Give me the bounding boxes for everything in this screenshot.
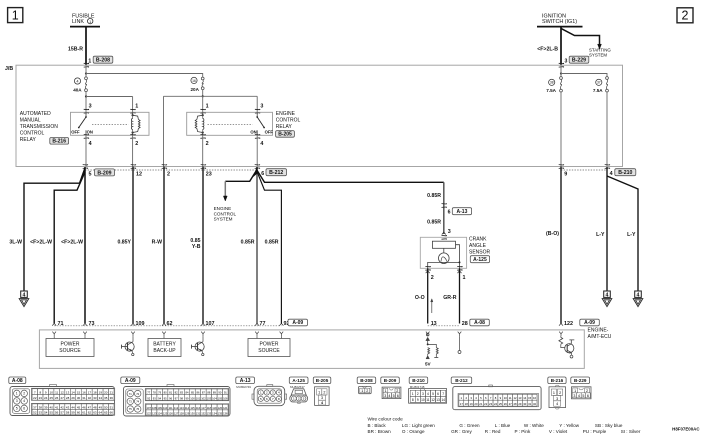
- svg-text:B-210: B-210: [412, 378, 425, 383]
- svg-text:PU : Purple: PU : Purple: [583, 429, 607, 434]
- svg-text:B-205: B-205: [278, 132, 292, 138]
- offsheet pointer 4 (L-Y left): [604, 291, 611, 297]
- ECU transistor under 107: [202, 336, 204, 342]
- svg-text:94: 94: [158, 396, 161, 400]
- svg-text:113: 113: [179, 406, 184, 410]
- svg-text:1: 1: [318, 391, 320, 395]
- svg-text:83: 83: [180, 391, 183, 395]
- svg-text:17: 17: [460, 402, 464, 406]
- svg-text:A-13: A-13: [240, 378, 251, 384]
- svg-text:15: 15: [528, 396, 532, 400]
- connector diagram A-09: [121, 377, 140, 384]
- svg-text:77: 77: [260, 321, 266, 327]
- svg-text:62: 62: [167, 321, 173, 327]
- svg-text:32: 32: [533, 402, 537, 406]
- svg-text:100: 100: [190, 396, 195, 400]
- relay pin crossings bottom: [84, 134, 88, 136]
- svg-text:BR : Brown: BR : Brown: [368, 429, 392, 434]
- svg-text:125: 125: [163, 411, 168, 415]
- svg-text:102: 102: [201, 396, 206, 400]
- connector diagram A-13: [236, 377, 255, 384]
- J/B bus from B-208 to fuse 16: [85, 72, 87, 74]
- svg-text:2: 2: [586, 389, 588, 393]
- svg-text:2: 2: [167, 172, 170, 178]
- svg-text:(B-O): (B-O): [546, 231, 559, 237]
- svg-text:33: 33: [93, 396, 97, 400]
- svg-text:93: 93: [153, 396, 156, 400]
- svg-text:89: 89: [213, 391, 216, 395]
- svg-text:24: 24: [44, 396, 48, 400]
- ECU box: [39, 330, 584, 369]
- junction at B-212 pin6 (thick): [256, 167, 258, 171]
- svg-text:136: 136: [223, 411, 228, 415]
- svg-text:5: 5: [16, 407, 18, 411]
- branch arrow to starting system: [561, 28, 600, 44]
- svg-text:27: 27: [60, 396, 64, 400]
- svg-text:6: 6: [23, 407, 25, 411]
- svg-text:122: 122: [564, 321, 573, 327]
- inline connector A-13 pin 6: [442, 203, 446, 205]
- svg-text:72: 72: [136, 392, 139, 396]
- svg-text:44: 44: [71, 405, 75, 409]
- svg-text:50: 50: [104, 405, 108, 409]
- corner sheet number 2: [677, 8, 693, 23]
- svg-text:22: 22: [484, 402, 488, 406]
- AMT relay coil (pins 1-2): [132, 114, 134, 116]
- svg-text:LG : Light green: LG : Light green: [402, 423, 435, 428]
- svg-text:R-W: R-W: [152, 240, 162, 246]
- svg-text:16: 16: [82, 390, 86, 394]
- svg-text:0.85Y: 0.85Y: [117, 240, 131, 246]
- svg-text:92: 92: [147, 396, 150, 400]
- svg-text:27: 27: [509, 402, 513, 406]
- svg-text:2: 2: [298, 397, 300, 401]
- svg-text:<F>2L-W: <F>2L-W: [30, 240, 52, 246]
- svg-text:3: 3: [384, 394, 386, 398]
- svg-text:75: 75: [129, 407, 132, 411]
- svg-text:3: 3: [89, 104, 92, 110]
- svg-text:26: 26: [55, 396, 59, 400]
- svg-text:B-229: B-229: [574, 378, 587, 383]
- svg-text:29: 29: [518, 402, 522, 406]
- svg-text:A-125: A-125: [292, 378, 305, 383]
- svg-text:9: 9: [417, 398, 419, 402]
- svg-text:ENGINE: ENGINE: [214, 206, 232, 211]
- svg-text:5: 5: [432, 392, 434, 396]
- svg-text:10: 10: [421, 398, 425, 402]
- relay box: engine control relay B-205: [187, 112, 273, 135]
- svg-text:1: 1: [361, 389, 363, 393]
- svg-text:77: 77: [147, 391, 150, 395]
- svg-text:POWER: POWER: [260, 342, 279, 348]
- svg-text:47: 47: [88, 405, 92, 409]
- svg-text:10: 10: [504, 396, 508, 400]
- svg-text:56: 56: [55, 411, 59, 415]
- svg-text:122: 122: [146, 411, 151, 415]
- svg-text:10: 10: [50, 390, 54, 394]
- svg-text:71: 71: [58, 321, 64, 327]
- svg-text:97: 97: [175, 396, 178, 400]
- svg-text:37: 37: [597, 81, 601, 85]
- svg-text:6: 6: [587, 394, 589, 398]
- offsheet pointer 4 (left): [21, 291, 28, 297]
- svg-text:127: 127: [174, 411, 179, 415]
- svg-text:A-08: A-08: [12, 378, 23, 384]
- svg-text:P : Pink: P : Pink: [515, 429, 531, 434]
- svg-text:R : Red: R : Red: [485, 429, 501, 434]
- svg-text:9: 9: [564, 172, 567, 178]
- svg-text:98: 98: [180, 396, 183, 400]
- svg-text:5: 5: [582, 394, 584, 398]
- svg-text:79: 79: [158, 391, 161, 395]
- dashed actuator link: [92, 124, 129, 126]
- svg-text:2: 2: [431, 275, 434, 281]
- svg-text:V : Violet: V : Violet: [549, 429, 568, 434]
- wire (B-O) pin9 to ECU 122: [560, 167, 562, 324]
- svg-text:MANUAL: MANUAL: [20, 118, 41, 124]
- connector diagram B-216: [548, 377, 566, 384]
- svg-text:37: 37: [33, 405, 37, 409]
- ECU connector dashed lines: [54, 325, 281, 327]
- svg-text:126: 126: [168, 411, 173, 415]
- svg-text:12: 12: [431, 398, 435, 402]
- svg-text:3L-W: 3L-W: [9, 240, 22, 246]
- svg-text:87: 87: [202, 391, 205, 395]
- svg-text:O : Orange: O : Orange: [402, 429, 425, 434]
- svg-text:128: 128: [179, 411, 184, 415]
- connector diagram B-209: [381, 377, 400, 384]
- svg-text:1: 1: [12, 8, 19, 22]
- svg-text:109: 109: [157, 406, 162, 410]
- svg-text:2: 2: [323, 391, 325, 395]
- svg-text:35: 35: [104, 396, 108, 400]
- svg-text:107: 107: [146, 406, 151, 410]
- svg-text:<F>2L-W: <F>2L-W: [61, 240, 83, 246]
- svg-text:RELAY: RELAY: [276, 124, 293, 130]
- svg-text:46: 46: [82, 405, 86, 409]
- fuse 37 (7.5A): [606, 77, 609, 80]
- svg-text:4: 4: [610, 171, 613, 177]
- svg-text:65: 65: [104, 411, 108, 415]
- svg-text:64: 64: [99, 411, 103, 415]
- svg-text:21: 21: [479, 402, 483, 406]
- ECU transistor under 109: [132, 336, 134, 342]
- svg-text:Y : Yellow: Y : Yellow: [559, 423, 580, 428]
- svg-text:1: 1: [463, 275, 466, 281]
- ECU socket forks: [52, 332, 56, 337]
- svg-text:ANGLE: ANGLE: [469, 243, 487, 249]
- svg-text:17: 17: [88, 390, 92, 394]
- svg-text:B : Black: B : Black: [368, 423, 387, 428]
- J/B exit crossings: [83, 164, 87, 166]
- svg-text:4: 4: [89, 141, 92, 147]
- svg-text:ENGINE: ENGINE: [276, 111, 296, 117]
- AMT relay switch (pins 3-4): [85, 112, 87, 117]
- svg-text:86: 86: [196, 391, 199, 395]
- svg-text:AUTOMATED: AUTOMATED: [20, 111, 51, 117]
- wire 2L-B from ignition switch: [560, 27, 562, 65]
- connector diagram A-125: [289, 377, 308, 384]
- battery back-up block: [163, 336, 165, 338]
- svg-text:7.5A: 7.5A: [593, 88, 603, 93]
- svg-text:2: 2: [559, 391, 561, 395]
- svg-text:13: 13: [518, 396, 522, 400]
- svg-text:117: 117: [201, 406, 206, 410]
- sensor pins 2 and 1: [425, 265, 429, 267]
- svg-text:80: 80: [164, 391, 167, 395]
- fuse 4 (40A): [85, 77, 88, 80]
- svg-text:L-Y: L-Y: [627, 232, 636, 238]
- ECU entry chevrons: [52, 323, 56, 325]
- svg-text:A/MT-ECU: A/MT-ECU: [588, 334, 612, 340]
- power source block 2: [256, 336, 258, 338]
- svg-text:B-208: B-208: [360, 378, 373, 383]
- svg-text:12: 12: [513, 396, 517, 400]
- junction at B-209 pin5 (thick): [84, 167, 86, 323]
- svg-text:1: 1: [384, 389, 386, 393]
- svg-text:99: 99: [186, 396, 189, 400]
- J/B bus from B-229 to fuses 38/37: [560, 72, 562, 74]
- svg-text:LINK: LINK: [72, 19, 84, 25]
- svg-text:5V: 5V: [425, 362, 432, 367]
- wires relay to J/B bottom: [202, 135, 204, 166]
- svg-text:4: 4: [606, 292, 609, 298]
- svg-text:4: 4: [637, 292, 640, 298]
- svg-text:73: 73: [129, 400, 132, 404]
- svg-text:42: 42: [60, 405, 64, 409]
- svg-text:23: 23: [489, 402, 493, 406]
- svg-text:4: 4: [427, 392, 429, 396]
- svg-text:8: 8: [412, 398, 414, 402]
- svg-text:20: 20: [104, 390, 108, 394]
- svg-text:88: 88: [207, 391, 210, 395]
- svg-text:31: 31: [528, 402, 532, 406]
- svg-text:123: 123: [152, 411, 157, 415]
- sensor internal wiring: [428, 245, 460, 269]
- svg-text:11: 11: [509, 396, 512, 400]
- svg-text:L : Blue: L : Blue: [495, 423, 511, 428]
- svg-text:109: 109: [136, 321, 145, 327]
- svg-text:3: 3: [303, 397, 305, 401]
- svg-text:38: 38: [550, 81, 554, 85]
- svg-text:A-09: A-09: [292, 320, 303, 326]
- wire 0.85 Y-B pin23 to ECU 107: [202, 167, 204, 324]
- svg-text:59: 59: [71, 411, 75, 415]
- svg-text:62: 62: [88, 411, 92, 415]
- svg-text:SYSTEM: SYSTEM: [589, 53, 607, 58]
- ECU 5V pull-up under 13: [426, 333, 429, 336]
- svg-text:20: 20: [474, 402, 478, 406]
- svg-text:71: 71: [129, 392, 132, 396]
- dashed actuator link: [208, 124, 253, 126]
- wire 15B-R from fusible link: [85, 27, 87, 65]
- svg-text:CRANK: CRANK: [469, 237, 487, 243]
- svg-text:4: 4: [23, 399, 25, 403]
- svg-text:5: 5: [89, 172, 92, 178]
- svg-text:16: 16: [192, 79, 196, 83]
- svg-text:116: 116: [196, 406, 201, 410]
- svg-text:POWER: POWER: [61, 342, 80, 348]
- svg-text:3: 3: [260, 104, 263, 110]
- svg-text:20A: 20A: [191, 87, 200, 92]
- svg-text:7: 7: [442, 392, 444, 396]
- svg-text:131: 131: [196, 411, 201, 415]
- svg-text:B-205: B-205: [316, 378, 329, 383]
- svg-text:B-212: B-212: [269, 170, 283, 176]
- connector diagram B-212: [451, 377, 472, 384]
- svg-text:1: 1: [293, 397, 295, 401]
- svg-text:3: 3: [16, 399, 18, 403]
- wires relay to J/B bottom: [85, 135, 87, 166]
- svg-text:54: 54: [44, 411, 48, 415]
- offsheet pointer 4 (L-Y right): [635, 291, 642, 297]
- svg-text:96: 96: [169, 396, 172, 400]
- svg-text:W : White: W : White: [524, 423, 544, 428]
- svg-text:103: 103: [207, 396, 212, 400]
- junction block J/B box: [16, 65, 623, 166]
- svg-text:BACK-UP: BACK-UP: [153, 348, 176, 354]
- svg-text:108: 108: [152, 406, 157, 410]
- svg-text:1: 1: [89, 20, 91, 24]
- svg-text:24: 24: [494, 402, 498, 406]
- relay box: automated manual transmission control relay B-216: [71, 112, 150, 135]
- svg-text:39: 39: [44, 405, 48, 409]
- svg-text:60: 60: [77, 411, 81, 415]
- svg-text:45: 45: [77, 405, 81, 409]
- svg-text:1: 1: [16, 392, 18, 396]
- ignition switch bus bar: [537, 26, 583, 28]
- node: fuse4 output to relay pins 3 and 1: [86, 97, 133, 113]
- svg-text:3: 3: [321, 396, 323, 400]
- svg-text:111: 111: [169, 406, 174, 410]
- svg-text:2: 2: [366, 389, 368, 393]
- svg-text:84: 84: [186, 391, 189, 395]
- svg-text:2: 2: [206, 141, 209, 147]
- svg-text:MU802749: MU802749: [236, 385, 251, 389]
- svg-text:41: 41: [55, 405, 59, 409]
- svg-text:29: 29: [71, 396, 75, 400]
- svg-text:B-216: B-216: [551, 378, 564, 383]
- svg-text:7.5A: 7.5A: [546, 88, 556, 93]
- svg-text:36: 36: [110, 396, 114, 400]
- svg-text:14: 14: [441, 398, 445, 402]
- crank angle sensor box A-125: [420, 237, 466, 268]
- svg-text:107: 107: [206, 321, 215, 327]
- thick wire from B-210 pin4, splits to two L-Y: [606, 167, 608, 291]
- svg-text:11: 11: [55, 390, 58, 394]
- svg-text:3: 3: [448, 229, 451, 235]
- svg-text:<F>2L-B: <F>2L-B: [537, 46, 558, 52]
- svg-text:121: 121: [223, 406, 228, 410]
- svg-text:SB : Sky blue: SB : Sky blue: [595, 423, 623, 428]
- svg-text:4: 4: [260, 141, 263, 147]
- svg-text:30: 30: [523, 402, 527, 406]
- connector diagram B-210: [409, 377, 428, 384]
- svg-text:74: 74: [136, 400, 139, 404]
- svg-text:13: 13: [436, 398, 440, 402]
- svg-text:6: 6: [448, 210, 451, 216]
- svg-text:H8F07E00AC: H8F07E00AC: [672, 426, 700, 431]
- fuse 38 (7.5A): [560, 77, 563, 80]
- svg-text:51: 51: [110, 405, 114, 409]
- signal direction arrow: [431, 301, 433, 313]
- sensor internal element circle: [443, 248, 445, 253]
- svg-text:28: 28: [462, 321, 468, 327]
- svg-text:15: 15: [77, 390, 81, 394]
- svg-text:13: 13: [431, 321, 437, 327]
- connector diagram A-08: [9, 377, 26, 384]
- svg-text:38: 38: [39, 405, 43, 409]
- sensor internal pickup rect: [432, 241, 455, 248]
- svg-text:2: 2: [396, 389, 398, 393]
- svg-text:4: 4: [578, 394, 580, 398]
- svg-text:GR-R: GR-R: [443, 295, 457, 301]
- wire R-W pin2 to ECU 62: [163, 167, 165, 324]
- svg-text:6: 6: [397, 394, 399, 398]
- svg-text:J/B: J/B: [5, 66, 13, 72]
- svg-text:11: 11: [426, 398, 430, 402]
- svg-text:22: 22: [33, 396, 37, 400]
- svg-text:118: 118: [207, 406, 212, 410]
- ECR switch (pins 3-4): [256, 112, 258, 117]
- svg-text:78: 78: [153, 391, 156, 395]
- svg-text:2: 2: [23, 392, 25, 396]
- ECU output transistor under 122: [560, 336, 562, 337]
- wire 0.85Y pin12 to ECU 109: [132, 167, 134, 324]
- wire O-O sensor pin2 to ECU 13: [427, 268, 429, 323]
- svg-text:21: 21: [110, 390, 114, 394]
- svg-text:ENGINE-: ENGINE-: [588, 328, 609, 334]
- svg-text:B-209: B-209: [384, 378, 397, 383]
- svg-text:112: 112: [174, 406, 179, 410]
- svg-text:53: 53: [39, 411, 43, 415]
- pin 6 / B-212 label: [266, 169, 287, 176]
- svg-text:57: 57: [60, 411, 64, 415]
- svg-text:B-210: B-210: [618, 170, 632, 176]
- svg-text:3: 3: [556, 397, 558, 401]
- svg-text:B-229: B-229: [572, 58, 586, 64]
- svg-text:ON: ON: [250, 130, 256, 135]
- svg-text:4: 4: [556, 402, 558, 406]
- svg-text:95: 95: [164, 396, 167, 400]
- svg-text:15B-R: 15B-R: [68, 46, 83, 52]
- connector diagram B-229: [571, 377, 590, 384]
- svg-text:43: 43: [66, 405, 70, 409]
- svg-text:134: 134: [212, 411, 217, 415]
- svg-text:16: 16: [533, 396, 537, 400]
- svg-text:104: 104: [212, 396, 217, 400]
- svg-text:101: 101: [196, 396, 201, 400]
- svg-text:SOURCE: SOURCE: [59, 348, 81, 354]
- svg-text:0.85R: 0.85R: [427, 193, 441, 199]
- svg-text:SI : Silver: SI : Silver: [621, 429, 641, 434]
- svg-text:90: 90: [218, 391, 221, 395]
- svg-text:25: 25: [50, 396, 54, 400]
- svg-text:0.85R: 0.85R: [427, 220, 441, 226]
- svg-text:6: 6: [437, 392, 439, 396]
- svg-text:23: 23: [206, 172, 212, 178]
- svg-text:48: 48: [93, 405, 97, 409]
- svg-text:58: 58: [66, 411, 70, 415]
- svg-text:1: 1: [553, 391, 555, 395]
- svg-text:26: 26: [504, 402, 508, 406]
- connector diagram B-205: [313, 377, 331, 384]
- svg-text:A-09: A-09: [125, 378, 136, 384]
- svg-text:RELAY: RELAY: [20, 137, 37, 143]
- svg-text:119: 119: [212, 406, 217, 410]
- node: fuse16 output rail to B-212 pin2 wire and relay pins: [164, 96, 258, 166]
- svg-text:2: 2: [682, 9, 689, 23]
